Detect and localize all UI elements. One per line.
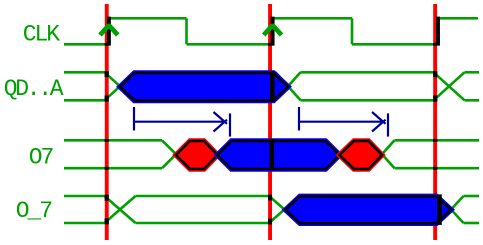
segment boundary at marker 2 [270, 71, 275, 102]
O7 bus waveform (green) [64, 140, 479, 168]
svg-text:O7: O7 [29, 145, 53, 171]
QD..A valid-data hexagon (blue) [120, 71, 288, 102]
O7 valid-data hexagon (blue) [218, 139, 340, 170]
svg-text:CLK: CLK [23, 22, 60, 48]
clock marker line 3 (red vertical) [433, 4, 437, 240]
clock marker line 1 (red vertical) [105, 4, 109, 240]
QD..A bends at marker 3 [433, 71, 437, 77]
clock marker line 2 (red vertical) [268, 4, 272, 240]
O7 line crossings at marker 1 [105, 139, 109, 142]
CLK rising-edge arrow 2 (green chevron) [264, 25, 282, 35]
dimension arrow 1 (delay measure) [134, 107, 230, 137]
CLK waveform (green) [64, 18, 478, 44]
CLK low-line stubs at markers [105, 43, 108, 46]
O_7 bus waveform (green) [64, 196, 479, 223]
O_7 bends at marker 2 [268, 195, 272, 201]
QD..A bus waveform (green) [64, 72, 479, 100]
O7 line crossings at marker 3 [433, 139, 437, 142]
O_7 bends at marker 1 [105, 195, 109, 201]
CLK rising-edge arrow 1 (green chevron) [100, 25, 118, 35]
O_7 valid-data hexagon (blue) [286, 194, 452, 225]
segment boundary at marker 3 [437, 194, 442, 225]
QD..A bends at marker 1 [105, 71, 109, 77]
O7 invalid hexagon (red) 1 [176, 141, 218, 169]
svg-text:O_7: O_7 [16, 198, 51, 224]
black dots where green crosses red markers [105, 43, 438, 225]
dimension arrow 2 (delay measure) [299, 107, 388, 137]
O7 invalid hexagon (red) 2 [340, 141, 383, 169]
svg-text:QD..A: QD..A [4, 76, 64, 102]
CLK black rising edges at markers [109, 17, 438, 46]
segment boundary at marker 2 [270, 139, 275, 170]
